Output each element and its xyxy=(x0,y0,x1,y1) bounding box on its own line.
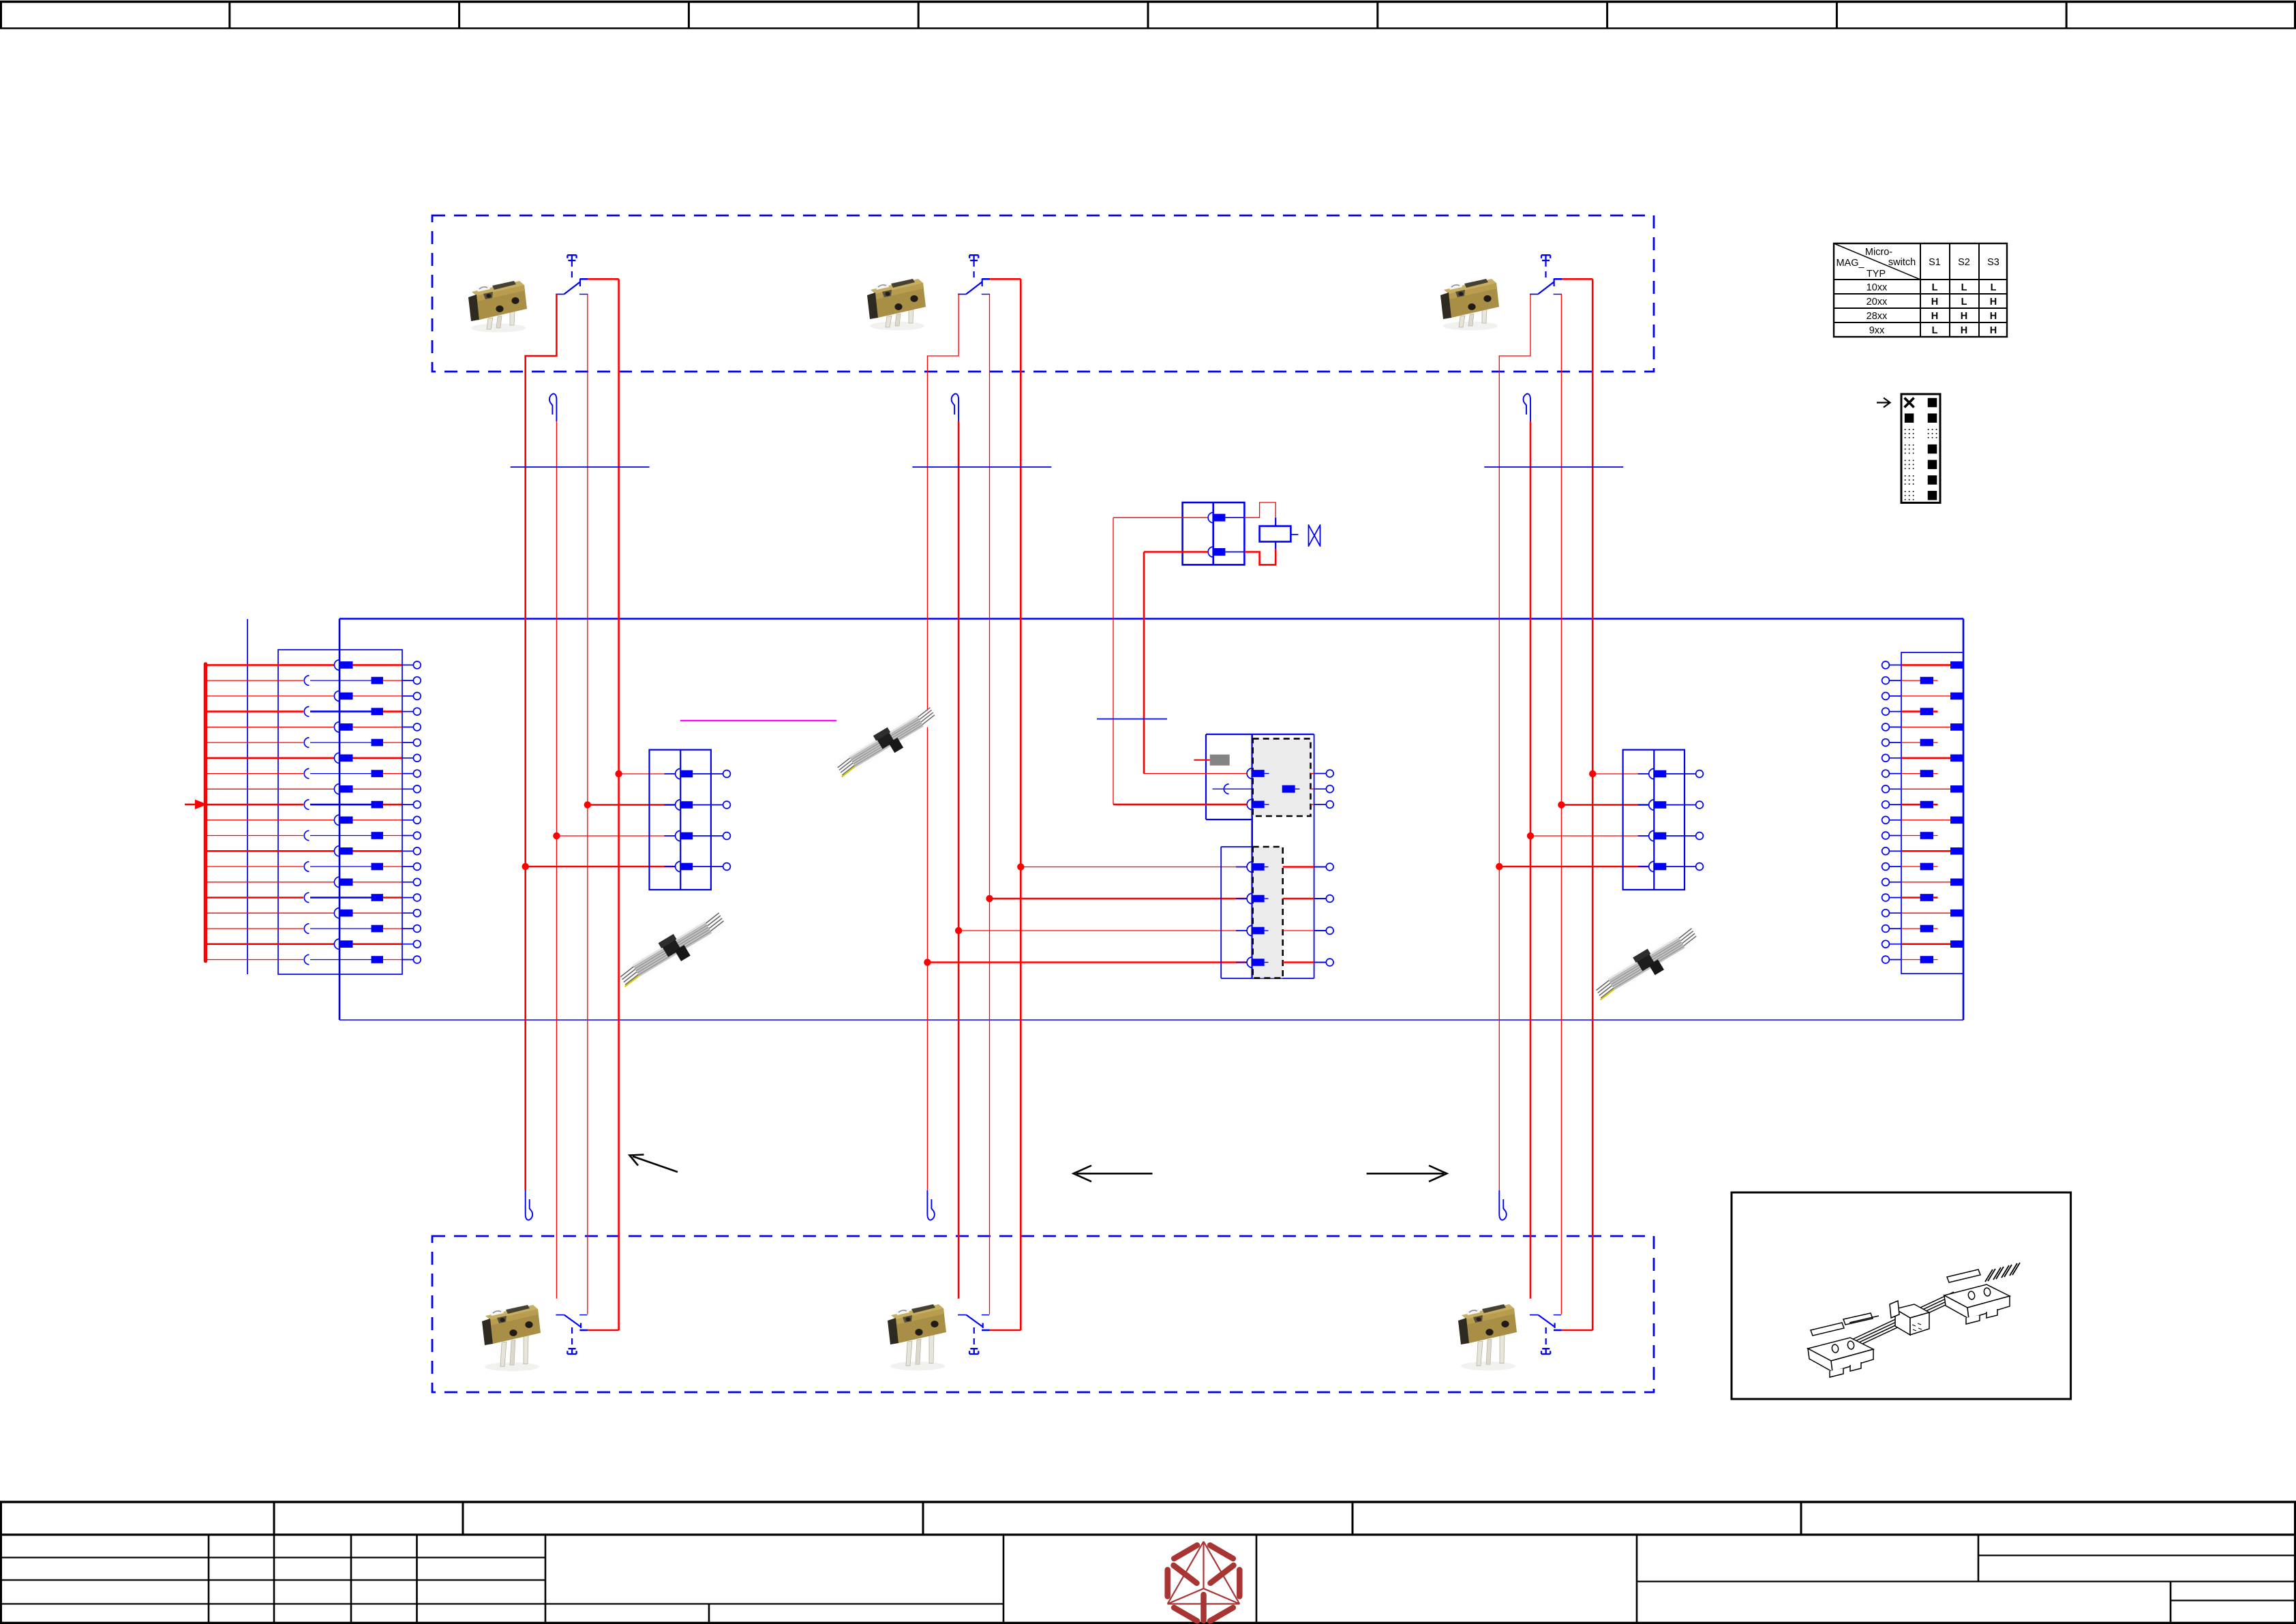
X2 row 4 terminal circle xyxy=(1882,708,1890,715)
junction node group 3 pin 2 xyxy=(1558,801,1565,808)
X3 pin 3 contact xyxy=(665,835,676,837)
X2 row 5 terminal circle xyxy=(1882,723,1890,731)
X1 row 13 (socket at rail) xyxy=(206,850,335,852)
microswitch plunger symbol xyxy=(969,255,978,260)
switch common terminal xyxy=(1530,294,1538,295)
X2 row 2 inline contact xyxy=(1901,680,1920,681)
X1 row 5 terminal circle xyxy=(402,726,414,727)
junction node group 1 pin 3 xyxy=(553,832,560,839)
bottom sensors dashed box xyxy=(432,1236,1654,1392)
junction node group 2 pin 3 xyxy=(955,927,962,934)
X4 pin 3 contact xyxy=(1247,799,1252,809)
X1 row 17 (socket at rail) xyxy=(206,912,335,914)
X4 pin 2 terminal circle xyxy=(1311,788,1314,790)
ribbon cable photo (center) xyxy=(832,703,941,782)
X2 row 8 terminal circle xyxy=(1882,770,1890,777)
switch NO contact xyxy=(579,279,581,287)
wire: X6 pin 1 to terminal xyxy=(1283,866,1314,868)
X2 row 17 contact at edge xyxy=(1901,912,1950,914)
X5 pin 2 contact xyxy=(1638,805,1649,806)
X1 row 6 (inline splice) xyxy=(206,742,304,743)
X2 row 19 contact at edge xyxy=(1901,943,1950,945)
wire: group 3 feed to connector pin 4 xyxy=(1499,866,1648,868)
X2 row 15 contact at edge xyxy=(1901,882,1950,883)
X2 row 9 contact at edge xyxy=(1901,788,1950,790)
junction node group 1 pin 2 xyxy=(584,801,591,808)
bottom switch NO contact xyxy=(580,1323,581,1329)
title block horizontal cell lines xyxy=(0,1555,2296,1604)
X5 pin 3 terminal circle xyxy=(1685,835,1696,837)
X4 pin 2 (unused, socket only) xyxy=(1213,788,1252,790)
iso center connector xyxy=(1895,1304,1929,1318)
bottom microswitch common terminal xyxy=(958,1314,966,1316)
wire: NO drop column group 1 xyxy=(618,279,620,1330)
svg-text:L: L xyxy=(1932,325,1938,336)
bottom plunger dashed link xyxy=(973,1327,975,1349)
icon pointer arrow xyxy=(1877,398,1890,408)
X2 row 20 inline contact xyxy=(1901,959,1920,961)
middle cable-loom box left edge xyxy=(339,619,341,1021)
bottom plunger dashed link xyxy=(571,1327,573,1349)
valve symbol xyxy=(1309,525,1320,546)
X6 pin 2 terminal circle xyxy=(1326,895,1333,903)
svg-text:Micro-: Micro- xyxy=(1865,247,1892,258)
X6 gray mating side xyxy=(1253,847,1283,978)
iso upper-right microswitch xyxy=(1944,1284,2010,1324)
X2 row 11 terminal circle xyxy=(1882,816,1890,824)
bottom switch NC contact xyxy=(1554,1314,1561,1316)
center connector shared right edge xyxy=(1314,734,1315,978)
svg-text:9xx: 9xx xyxy=(1869,325,1885,336)
X6 pin 3 terminal circle xyxy=(1326,927,1333,935)
bottom switch lever xyxy=(564,1315,581,1327)
wire: NO drop column group 2 xyxy=(1020,279,1022,1330)
X6 pin 4 terminal circle xyxy=(1326,959,1333,966)
wire: group 2 feed to connector pin 1 xyxy=(1021,867,1247,868)
zone tick marks xyxy=(230,1,2066,29)
X4 gray mating side xyxy=(1253,738,1311,816)
switch common terminal xyxy=(556,294,564,295)
title block left cell verticals xyxy=(209,1535,2171,1623)
svg-text:H: H xyxy=(1990,325,1997,336)
X1 row 4 (inline splice) xyxy=(206,710,304,712)
X2 row 13 terminal circle xyxy=(1882,847,1890,855)
X6 pin 2 contact xyxy=(1236,898,1247,899)
wire: common drop with jog group 3 xyxy=(1499,295,1530,1191)
crimp hook start of sense wire group 2 xyxy=(952,394,958,421)
X5 pin 1 terminal circle xyxy=(1685,773,1696,775)
X1 row 1 (socket at rail) xyxy=(206,664,335,666)
plunger dashed link xyxy=(571,260,573,277)
bottom switch lever xyxy=(966,1315,983,1327)
direction arrow middle (left) xyxy=(1074,1166,1153,1182)
wire: group 2 feed to connector pin 4 xyxy=(927,961,1247,963)
X6 pin 3 contact xyxy=(1236,930,1247,931)
wire: group 3 feed to connector pin 1 xyxy=(1592,773,1648,775)
X1 row 1 terminal circle xyxy=(402,664,414,665)
wire: NO drop column group 3 xyxy=(1592,279,1594,1330)
X3 pin 2 terminal circle xyxy=(711,805,723,806)
title block row1 dividers xyxy=(274,1502,1801,1535)
X3 pin 1 contact xyxy=(665,773,676,775)
microswitch photo S4 (bottom) xyxy=(482,1305,541,1371)
X2 row 14 terminal circle xyxy=(1882,863,1890,871)
X1 row 14 terminal circle xyxy=(402,866,414,867)
X5 pin 4 terminal circle xyxy=(1685,866,1696,867)
bottom plunger symbol xyxy=(1541,1349,1550,1354)
title block second line xyxy=(0,1533,2296,1535)
svg-text:TYP: TYP xyxy=(1867,269,1886,280)
wire: X6 pin 2 to terminal xyxy=(1283,898,1314,900)
switch NC contact xyxy=(982,294,990,295)
sheet bottom border xyxy=(0,1622,2296,1624)
bottom plunger symbol xyxy=(969,1349,978,1354)
page side borders xyxy=(0,1,2,29)
junction node group 2 pin 4 xyxy=(924,959,931,965)
X1 row 20 (inline splice) xyxy=(206,959,304,961)
svg-text:H: H xyxy=(1990,297,1997,307)
microswitch photo S1 (top) xyxy=(468,281,527,333)
microswitch/MAG_TYP table xyxy=(1834,243,2007,337)
X2 row 13 contact at edge xyxy=(1901,850,1950,852)
junction node group 1 pin 1 xyxy=(615,770,622,777)
X4 pin 3 terminal circle xyxy=(1311,804,1314,805)
X5 pin 4 contact xyxy=(1638,866,1649,867)
X1 row 4 terminal circle xyxy=(402,711,414,712)
svg-text:H: H xyxy=(1961,325,1967,336)
X1 row 19 (socket at rail) xyxy=(206,943,335,945)
wire: top switch 3 NO terminal to drop xyxy=(1562,278,1592,280)
switch lever xyxy=(1538,282,1554,295)
svg-text:L: L xyxy=(1961,297,1967,307)
switch common terminal xyxy=(958,294,966,295)
X6 pin 1 contact xyxy=(1236,867,1247,868)
junction node group 1 pin 4 xyxy=(522,863,529,870)
table header text xyxy=(1836,247,1999,336)
connector X2 body xyxy=(1901,652,1963,974)
X1 row 7 (socket at rail) xyxy=(206,757,335,760)
X1 row 18 (inline splice) xyxy=(206,928,304,929)
X2 row 17 terminal circle xyxy=(1882,909,1890,917)
bottom plunger dashed link xyxy=(1545,1327,1547,1349)
svg-text:28xx: 28xx xyxy=(1867,311,1888,322)
X1 row 19 terminal circle xyxy=(402,944,414,945)
X2 row 5 contact at edge xyxy=(1901,726,1950,727)
wire: group 1 feed to connector pin 4 xyxy=(526,866,675,868)
K1 pin 2 contact xyxy=(1208,547,1213,557)
highlight wire (magenta) xyxy=(680,720,836,721)
connector block X5 body xyxy=(1623,750,1685,890)
wire: K1 pin1 drop to X4 pin3 xyxy=(1113,517,1114,805)
wire: coil bottom to K1 pin2 loop xyxy=(1275,542,1276,550)
X1 row 2 (inline splice) xyxy=(206,680,304,681)
bottom microswitch common terminal xyxy=(1530,1314,1538,1316)
X2 row 18 inline contact xyxy=(1901,928,1920,929)
X5 pin 1 contact xyxy=(1638,773,1649,775)
X3 pin 4 contact xyxy=(665,866,676,867)
X3 pin 4 terminal circle xyxy=(711,866,723,867)
X5 pin 2 terminal circle xyxy=(1685,805,1696,806)
X2 row 2 terminal circle xyxy=(1882,677,1890,685)
isometric switch assembly drawing xyxy=(1808,1263,2020,1377)
svg-text:L: L xyxy=(1961,282,1967,293)
wire: K1 pin1 feed xyxy=(1113,517,1208,518)
X1 row 5 (socket at rail) xyxy=(206,726,335,727)
company logo (hexagon with cube wireframe) xyxy=(1168,1542,1240,1621)
cable crossing tick at relay drops xyxy=(1097,719,1167,720)
svg-text:S3: S3 xyxy=(1987,257,1999,268)
svg-text:L: L xyxy=(1932,282,1938,293)
X1 row 9 terminal circle xyxy=(402,788,414,790)
microswitch photo S6 (bottom) xyxy=(1458,1304,1517,1370)
X2 row 16 inline contact xyxy=(1901,897,1920,899)
X1 row 20 terminal circle xyxy=(402,959,414,961)
wire: group 1 feed to connector pin 2 xyxy=(588,804,675,806)
middle cable-loom box top edge xyxy=(339,618,1963,620)
X2 row 3 terminal circle xyxy=(1882,693,1890,700)
connector pin diagram icon xyxy=(1901,394,1940,502)
bottom switch NO contact xyxy=(982,1323,984,1329)
3-pin connector block X4 body xyxy=(1206,734,1314,735)
wire: K1 pin2 drop to X4 pin1 xyxy=(1144,552,1247,774)
X1 row 17 terminal circle xyxy=(402,912,414,914)
junction node group 2 pin 1 xyxy=(1017,863,1024,870)
wire: sense drop column group 2 xyxy=(958,421,960,1299)
middle cable-loom box right edge xyxy=(1963,619,1965,1021)
svg-text:10xx: 10xx xyxy=(1867,282,1888,293)
plunger dashed link xyxy=(1545,260,1546,277)
cable crossing tick group 1 xyxy=(511,466,650,468)
wire: NC drop column group 2 xyxy=(989,295,991,1314)
bottom plunger symbol xyxy=(567,1349,576,1354)
title block top line xyxy=(0,1501,2296,1503)
X1 row 2 terminal circle xyxy=(402,680,414,681)
wire: X6 pin 3 to terminal xyxy=(1283,930,1314,931)
junction node group 3 pin 1 xyxy=(1589,770,1596,777)
svg-text:S1: S1 xyxy=(1929,257,1941,268)
X2 row 11 contact at edge xyxy=(1901,819,1950,821)
iso lower-left microswitch xyxy=(1808,1338,1873,1377)
X1 row 15 terminal circle xyxy=(402,882,414,883)
connector block X3 body xyxy=(650,750,711,890)
wire: group 3 feed to connector pin 2 xyxy=(1561,804,1648,806)
X1 row 3 terminal circle xyxy=(402,695,414,697)
X1 row 7 terminal circle xyxy=(402,757,414,759)
X4 coding key (gray plug) xyxy=(1210,755,1230,766)
wire: bottom NO link group 3 xyxy=(1562,1329,1592,1332)
switch lever xyxy=(564,282,580,295)
X2 row 18 terminal circle xyxy=(1882,925,1890,933)
junction node group 3 pin 3 xyxy=(1527,832,1534,839)
wire: NC drop column group 1 xyxy=(587,295,588,1314)
X2 row 19 terminal circle xyxy=(1882,940,1890,948)
plunger dashed link xyxy=(973,260,974,277)
X5 pin 3 contact xyxy=(1638,835,1649,837)
crimp hook end of common wire group 1 xyxy=(526,1190,532,1220)
X3 pin 3 terminal circle xyxy=(711,835,723,837)
svg-text:switch: switch xyxy=(1888,257,1916,268)
wire: group 3 feed to connector pin 3 xyxy=(1530,835,1648,837)
microswitch photo S3 (top) xyxy=(1440,279,1499,331)
wire: coding key feed xyxy=(1194,760,1209,761)
svg-text:L: L xyxy=(1991,282,1997,293)
wire: group 2 feed to connector pin 3 xyxy=(958,930,1247,931)
switch lever xyxy=(966,282,982,295)
crimp hook end of common wire group 3 xyxy=(1499,1190,1506,1220)
magnet connector K1 body xyxy=(1183,502,1245,565)
bottom switch NC contact xyxy=(982,1314,989,1316)
X2 row 15 terminal circle xyxy=(1882,878,1890,886)
svg-text:20xx: 20xx xyxy=(1867,297,1888,307)
chassis line left of X1 xyxy=(247,619,248,974)
X1 row 14 (inline splice) xyxy=(206,866,304,867)
X1 row 12 (inline splice) xyxy=(206,835,304,837)
connector X1 body xyxy=(278,650,402,974)
wire: sense drop column group 3 xyxy=(1530,421,1532,1299)
microswitch plunger symbol xyxy=(567,255,576,260)
X1 row 13 terminal circle xyxy=(402,850,414,852)
junction node group 3 pin 4 xyxy=(1496,863,1502,870)
microswitch plunger symbol xyxy=(1541,255,1550,260)
wire: top switch 1 NO terminal to drop xyxy=(588,278,618,280)
X1 row 3 (socket at rail) xyxy=(206,695,335,697)
microswitch photo S2 (top) xyxy=(867,279,926,331)
detail view box xyxy=(1732,1192,2071,1399)
wire: group 1 feed to connector pin 1 xyxy=(619,773,675,775)
switch NO contact xyxy=(1554,279,1555,287)
X2 row 8 inline contact xyxy=(1901,773,1920,775)
X2 row 7 contact at edge xyxy=(1901,757,1950,760)
X2 row 10 terminal circle xyxy=(1882,801,1890,809)
middle cable-loom box bottom edge xyxy=(339,1019,1963,1021)
wire: bottom NO link group 2 xyxy=(990,1329,1021,1332)
X2 row 3 contact at edge xyxy=(1901,695,1950,697)
X4 pin 1 contact xyxy=(1247,768,1252,779)
sheet top border xyxy=(0,1,2296,3)
X1 row 12 terminal circle xyxy=(402,835,414,837)
X1 row 11 (socket at rail) xyxy=(206,819,335,821)
bottom switch NO contact xyxy=(1554,1323,1556,1329)
valve symbol link xyxy=(1290,534,1298,535)
X2 row 9 terminal circle xyxy=(1882,785,1890,793)
bottom microswitch common terminal xyxy=(556,1314,564,1316)
crimp hook end of common wire group 2 xyxy=(927,1190,934,1220)
bottom switch lever xyxy=(1538,1315,1555,1327)
wire: common drop with jog group 2 xyxy=(927,295,958,1191)
X2 row 7 terminal circle xyxy=(1882,754,1890,762)
wire: sense drop column group 1 xyxy=(556,421,557,1299)
wire: K1 pin1 loop to coil top xyxy=(1244,502,1275,517)
svg-text:H: H xyxy=(1931,297,1938,307)
wire: bottom NO link group 1 xyxy=(588,1329,618,1332)
X6 pin 4 contact xyxy=(1236,962,1247,963)
switch NO contact xyxy=(982,279,983,287)
X2 row 6 inline contact xyxy=(1901,742,1920,743)
X2 row 10 inline contact xyxy=(1901,804,1920,806)
X2 row 1 terminal circle xyxy=(1882,661,1890,669)
X2 row 14 inline contact xyxy=(1901,866,1920,867)
cable crossing tick group 2 xyxy=(912,466,1051,468)
wire: top switch 2 NO terminal to drop xyxy=(990,278,1021,280)
X3 pin 1 terminal circle xyxy=(711,773,723,775)
X1 row 11 terminal circle xyxy=(402,819,414,821)
svg-text:H: H xyxy=(1961,311,1967,322)
cable crossing tick group 3 xyxy=(1484,466,1623,468)
X2 row 16 terminal circle xyxy=(1882,894,1890,901)
X2 row 20 terminal circle xyxy=(1882,956,1890,963)
wire: common drop with jog group 1 xyxy=(526,295,557,1191)
wire: NC drop column group 3 xyxy=(1560,295,1562,1314)
icon row contents xyxy=(1905,398,1937,500)
X1 row 10 (inline splice) xyxy=(206,804,304,806)
wire: group 2 feed to connector pin 2 xyxy=(990,898,1248,900)
wire: X6 pin 4 to terminal xyxy=(1283,961,1314,963)
supply arrow into bus xyxy=(185,804,198,805)
junction node group 2 pin 2 xyxy=(986,895,993,902)
crimp hook start of sense wire group 3 xyxy=(1524,394,1530,421)
X1 row 15 (socket at rail) xyxy=(206,882,335,883)
X1 row 10 terminal circle xyxy=(402,804,414,805)
K1 pin 1 contact xyxy=(1208,513,1213,523)
top sensors dashed box xyxy=(432,215,1654,372)
ribbon cable photo (column 1) xyxy=(614,908,730,993)
svg-text:H: H xyxy=(1990,311,1997,322)
X1 row 6 terminal circle xyxy=(402,742,414,743)
direction arrow left (diagonal) xyxy=(630,1155,678,1173)
wire: group 1 feed to connector pin 3 xyxy=(556,835,675,837)
X2 row 12 terminal circle xyxy=(1882,832,1890,839)
switch NC contact xyxy=(1554,294,1562,295)
X1 row 16 terminal circle xyxy=(402,897,414,899)
sheet zone strip bottom line xyxy=(0,27,2296,29)
X1 row 8 terminal circle xyxy=(402,773,414,775)
svg-text:H: H xyxy=(1931,311,1938,322)
X1 supply bus bar xyxy=(204,664,208,961)
X1 row 16 (inline splice) xyxy=(206,897,304,899)
X1 row 18 terminal circle xyxy=(402,928,414,929)
ribbon cable photo (column 3) xyxy=(1590,924,1703,1006)
X1 row 8 (inline splice) xyxy=(206,773,304,775)
microswitch photo S5 (bottom) xyxy=(888,1304,946,1370)
solenoid coil M1 xyxy=(1260,526,1291,542)
center connector shared pin rail xyxy=(1251,734,1253,978)
direction arrow right xyxy=(1367,1166,1447,1182)
X2 row 6 terminal circle xyxy=(1882,739,1890,747)
crimp hook start of sense wire group 1 xyxy=(549,394,556,421)
4-pin connector block X6 body xyxy=(1221,846,1252,847)
bottom switch NC contact xyxy=(579,1314,587,1316)
svg-text:S2: S2 xyxy=(1958,257,1970,268)
X2 row 12 inline contact xyxy=(1901,835,1920,837)
svg-text:MAG_: MAG_ xyxy=(1836,258,1864,269)
X4 pin 1 terminal circle xyxy=(1311,773,1314,775)
X6 pin 1 terminal circle xyxy=(1326,863,1333,871)
X1 row 9 (socket at rail) xyxy=(206,788,335,790)
X2 row 1 contact at edge xyxy=(1901,664,1950,666)
X2 row 4 inline contact xyxy=(1901,710,1920,712)
switch NC contact xyxy=(579,294,588,295)
X3 pin 2 contact xyxy=(665,805,676,806)
wire: K1 pin2 feed xyxy=(1144,551,1208,553)
